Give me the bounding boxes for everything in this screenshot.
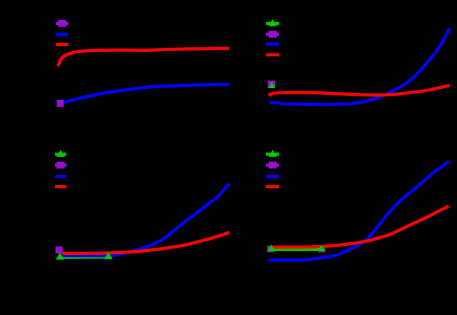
purple square marker left subplot4 [267,246,274,253]
green line subplot4 [271,248,321,251]
legend entry green line [266,153,279,156]
purple square marker subplot1 [57,100,64,107]
legend entry purple square marker [58,20,66,27]
purple square marker subplot2 [268,81,275,88]
green line subplot3 [60,255,109,258]
purple square marker subplot3 [56,246,63,253]
legend entry purple line [266,164,279,167]
legend entry blue line [56,33,68,36]
legend entry purple square marker [269,162,277,169]
legend entry green triangle marker [268,19,276,26]
legend entry purple line [56,22,68,25]
legend entry red line [266,53,279,56]
legend entry red line [266,185,279,188]
blue curve subplot2 [270,29,450,105]
legend entry green line [55,153,66,156]
legend entry purple line [266,33,279,36]
green triangle marker left subplot3 [56,252,65,259]
red curve subplot1 [58,48,229,66]
legend entry red line [55,185,66,188]
red curve subplot3 [62,232,229,253]
legend entry purple square marker [57,162,65,169]
legend entry blue line [266,175,279,178]
legend entry green line [266,22,279,25]
legend entry blue line [55,175,66,178]
legend entry green triangle marker [56,150,64,157]
legend entry purple square marker [269,31,277,38]
red curve subplot2 [269,85,450,95]
green triangle marker right subplot4 [317,245,325,251]
green triangle marker right subplot3 [104,252,113,259]
legend entry red line [56,43,68,46]
legend entry blue line [266,42,279,45]
blue curve subplot1 [64,84,230,102]
green triangle marker subplot2 [268,82,275,88]
legend entry purple line [55,164,66,167]
legend entry green triangle marker [268,150,276,157]
green triangle marker left subplot4 [267,245,275,251]
blue curve subplot4 [269,161,450,260]
red curve subplot4 [271,206,449,247]
blue curve subplot3 [62,184,229,256]
purple square marker right subplot4 [318,246,325,253]
